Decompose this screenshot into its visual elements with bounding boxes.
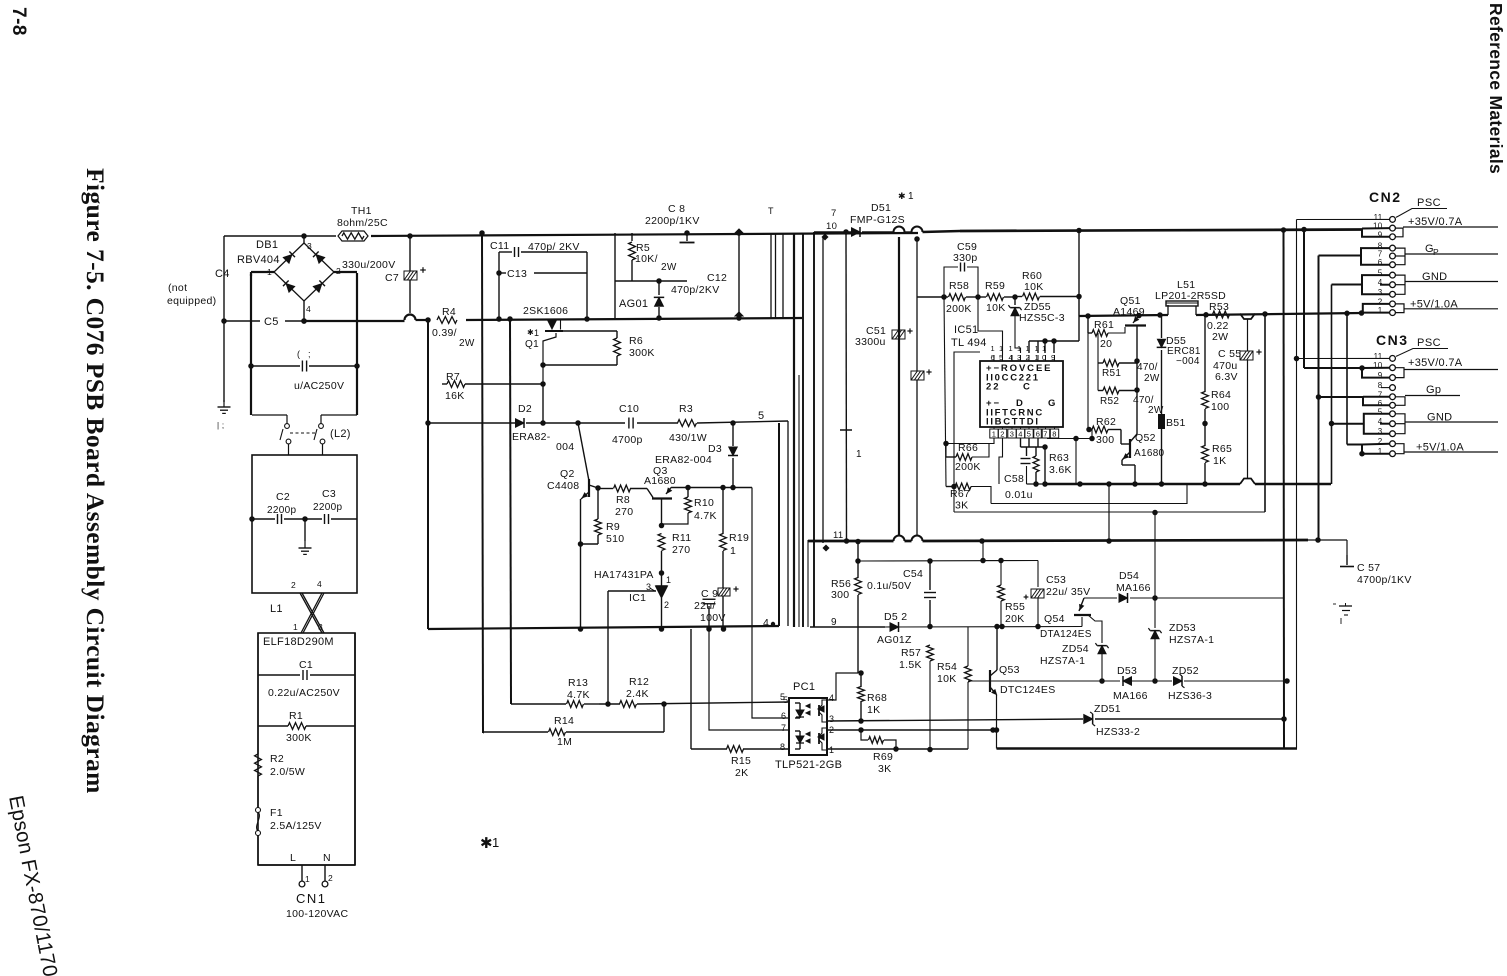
svg-text:ZD51: ZD51 [1094, 703, 1121, 715]
svg-text:HZS36-3: HZS36-3 [1168, 690, 1212, 702]
svg-text:7: 7 [1378, 250, 1383, 259]
wire top rail (+310V primary) [224, 235, 336, 237]
wire pins 7-8 row y438 [1046, 437, 1048, 440]
svg-text:330p: 330p [953, 252, 978, 264]
svg-text:PC1: PC1 [793, 681, 815, 693]
CN3 Gp bracket left [1319, 396, 1364, 398]
svg-text:2: 2 [328, 873, 333, 883]
resistor R55 20K [1000, 561, 1002, 586]
resistor R68 1K [827, 673, 858, 700]
svg-text:R52: R52 [1100, 396, 1119, 407]
svg-text:270: 270 [672, 544, 690, 556]
svg-text:PSC: PSC [1417, 197, 1441, 209]
PC1 channel2 LED [795, 730, 800, 732]
svg-text:0.1u/50V: 0.1u/50V [867, 580, 911, 592]
svg-text:IC51: IC51 [954, 324, 978, 336]
capacitor C53 22u/35V [1037, 561, 1039, 588]
svg-text:L: L [290, 852, 296, 864]
wire x946 R58-left down to R67 row [944, 297, 946, 487]
svg-text:1: 1 [991, 344, 995, 353]
svg-text:300: 300 [831, 589, 849, 601]
title: Figure 7-5. C076 PSB Board Assembly Circuit Diagram (rotated) [81, 168, 110, 794]
svg-text:F1: F1 [270, 807, 283, 819]
transformer polarity dot top [821, 233, 828, 240]
svg-text:10K/: 10K/ [635, 253, 658, 265]
resistor R9 510 [597, 488, 599, 519]
switch pair (L2) [252, 414, 287, 416]
resistor R66 200K [946, 456, 956, 458]
svg-text:ELF18D290M: ELF18D290M [263, 636, 334, 648]
svg-text:C4: C4 [215, 268, 230, 280]
wire bridge node2 to box [334, 271, 357, 273]
svg-text:3: 3 [1378, 288, 1383, 297]
resistor R54 10K [967, 627, 969, 667]
CN3 GND output [1396, 414, 1406, 434]
capacitor C9 22u/100V [708, 606, 710, 629]
svg-text:200K: 200K [946, 303, 972, 315]
wire left vertical of AC box [250, 274, 252, 415]
svg-text:1.5K: 1.5K [899, 659, 922, 671]
svg-text:R10: R10 [694, 497, 714, 509]
svg-text:1: 1 [856, 449, 862, 460]
svg-text:T: T [768, 206, 774, 216]
svg-text:100-120VAC: 100-120VAC [286, 908, 348, 920]
resistor R62 300 [1091, 430, 1093, 439]
svg-text:200K: 200K [955, 461, 981, 473]
CN3 Gp output [1396, 397, 1406, 406]
diode D2 ERA82-004 [516, 419, 525, 428]
svg-text:ERA82-: ERA82- [512, 431, 551, 443]
wire PC1 pin2 row y730 [827, 729, 993, 731]
wire L1 right edge [354, 633, 356, 865]
wire right bus x1296 (PSC) [1296, 220, 1298, 749]
svg-text:10: 10 [826, 221, 837, 232]
svg-text:4.7K: 4.7K [694, 510, 717, 522]
CN2 +5V bracket left [1363, 304, 1390, 313]
svg-text:−004: −004 [1176, 356, 1200, 367]
svg-text:MA166: MA166 [1113, 690, 1148, 702]
wire right bus x1304 (+35V to CN3) [1303, 230, 1305, 369]
ground below C2/C3 [304, 519, 306, 541]
PC1 channel2 phototransistor [818, 733, 820, 744]
svg-text:+35V/0.7A: +35V/0.7A [1408, 357, 1463, 369]
svg-text:2200p/1KV: 2200p/1KV [645, 215, 700, 227]
resistor R1 300K [258, 725, 288, 727]
svg-text:✱: ✱ [480, 835, 493, 852]
svg-text:DTC124ES: DTC124ES [1000, 684, 1056, 696]
wire snubber node row y281 [615, 280, 687, 282]
resistor R56 300 [857, 542, 859, 579]
svg-text:R67: R67 [950, 488, 970, 500]
svg-text:C 57: C 57 [1357, 562, 1380, 574]
svg-text:22u/ 35V: 22u/ 35V [1046, 586, 1090, 598]
zener diode ZD52 HZS36-3 [1174, 677, 1183, 686]
page number 7-8 (rotated) [8, 7, 29, 36]
resistor R67 3K [946, 486, 955, 488]
svg-text:G: G [1048, 398, 1056, 409]
svg-text:D53: D53 [1117, 665, 1137, 677]
wire right bus x1284 (+35V down) [1283, 230, 1286, 749]
resistor R63 3.6K [1035, 447, 1037, 456]
svg-text:470/: 470/ [1137, 362, 1158, 373]
resistor R6 300K [616, 331, 618, 338]
zener diode ZD53 HZS7A-1 [1154, 513, 1156, 599]
svg-text:(: ( [297, 349, 300, 359]
svg-text:P: P [1433, 247, 1439, 257]
svg-text:5: 5 [758, 410, 764, 422]
resistor R61 20 [1087, 316, 1089, 333]
svg-text:R14: R14 [554, 715, 574, 727]
svg-text:MA166: MA166 [1116, 582, 1151, 594]
svg-text:8: 8 [1378, 381, 1383, 390]
svg-text:C53: C53 [1046, 574, 1066, 586]
svg-text:C4408: C4408 [547, 480, 579, 492]
svg-text:3: 3 [829, 714, 834, 724]
svg-text:6.3V: 6.3V [1215, 371, 1238, 383]
wire x983 rail541 to row561 [982, 541, 984, 561]
svg-text:2: 2 [1000, 430, 1004, 439]
zener diode ZD54 HZS7A-1 [1098, 646, 1106, 654]
svg-text:1: 1 [992, 430, 996, 439]
svg-text:6: 6 [781, 711, 786, 721]
svg-text:2: 2 [1378, 297, 1383, 306]
resistor R12 2.4K [620, 701, 637, 708]
svg-text:470p/2KV: 470p/2KV [671, 284, 720, 296]
svg-text:R8: R8 [616, 494, 630, 506]
svg-text:R69: R69 [873, 751, 893, 763]
svg-text:HZS33-2: HZS33-2 [1096, 726, 1140, 738]
transformer polarity dot bottom [822, 544, 829, 551]
svg-text:1: 1 [1026, 344, 1030, 353]
svg-text:D51: D51 [871, 202, 891, 214]
svg-text:TL 494: TL 494 [951, 337, 987, 349]
svg-text:430/1W: 430/1W [669, 432, 707, 444]
resistor R14 1M [484, 731, 548, 733]
svg-text:1: 1 [1017, 344, 1021, 353]
capacitor C11 470p/2KV loop [498, 252, 500, 319]
svg-text:11: 11 [1374, 352, 1383, 361]
diode D55 ERC81-004 [1161, 315, 1163, 338]
resistor R58 200K [944, 296, 948, 298]
PC1 channel1 light arrows [806, 704, 810, 708]
svg-text:1: 1 [1009, 344, 1013, 353]
svg-text:5: 5 [1378, 407, 1383, 416]
svg-text:4: 4 [317, 579, 322, 589]
svg-text:2: 2 [1026, 353, 1030, 362]
svg-text:TH1: TH1 [351, 205, 372, 217]
capacitor C8 2200p/1KV [684, 230, 690, 236]
svg-text:2SK1606: 2SK1606 [523, 305, 568, 317]
svg-text:4: 4 [1378, 417, 1383, 426]
svg-text:0.22u/AC250V: 0.22u/AC250V [268, 687, 340, 699]
svg-text:300K: 300K [629, 347, 655, 359]
svg-text:100: 100 [1211, 401, 1229, 413]
svg-text:A1469: A1469 [1113, 306, 1145, 318]
svg-text:300: 300 [1096, 434, 1114, 446]
svg-text:11: 11 [1374, 213, 1383, 222]
resistor R53 0.22 2W [1213, 311, 1230, 318]
resistor R2 2.0/5W [255, 754, 262, 776]
wire x752 to PC1 pin6 [752, 488, 789, 719]
resistor R64 100 [1204, 315, 1206, 392]
resistor R51 470/2W [1097, 333, 1099, 391]
svg-text:R65: R65 [1212, 443, 1232, 455]
svg-text:R59: R59 [985, 280, 1005, 292]
wire rail541 thin tail to C57 [1308, 539, 1347, 541]
svg-text:ZD52: ZD52 [1172, 665, 1199, 677]
svg-text:R6: R6 [629, 335, 643, 347]
svg-text:;: ; [308, 349, 311, 359]
wire pins 4-6 to C58 [1020, 438, 1022, 447]
wire x1088 down to R62 [1087, 333, 1089, 430]
svg-text:1: 1 [293, 622, 298, 632]
CN2 Gp output [1396, 248, 1406, 265]
wire x1109 rail484 to rail541 [1108, 484, 1110, 541]
wire TL494 emitter pins row y341 [1029, 340, 1079, 342]
wire top row y560 right part [983, 560, 1038, 562]
svg-text:2: 2 [664, 600, 669, 610]
svg-text:7: 7 [1043, 430, 1047, 439]
svg-text:4: 4 [1378, 278, 1383, 287]
CN3 pin 11 PSC wire [1297, 357, 1390, 359]
svg-text:TLP521-2GB: TLP521-2GB [775, 759, 842, 771]
svg-text:Q2: Q2 [560, 468, 575, 480]
svg-text:C 55: C 55 [1218, 348, 1241, 360]
svg-text:7: 7 [831, 208, 837, 219]
svg-text:5: 5 [1378, 269, 1383, 278]
svg-text:6: 6 [991, 353, 995, 362]
CN3 GND bracket left [1364, 414, 1390, 434]
svg-text:(L2): (L2) [330, 428, 351, 440]
svg-text:HZS7A-1: HZS7A-1 [1169, 634, 1214, 646]
wire x484 thick from top [483, 732, 486, 734]
wire secondary bottom rail y541 (pin 11) [808, 540, 894, 543]
svg-text:4: 4 [829, 693, 834, 703]
svg-text:10K: 10K [937, 673, 957, 685]
svg-text:D54: D54 [1119, 570, 1139, 582]
svg-text:R63: R63 [1049, 452, 1069, 464]
svg-text:R9: R9 [606, 521, 620, 533]
fuse F1 2.5A/125V [256, 808, 261, 813]
svg-text:C58: C58 [1004, 473, 1024, 485]
svg-text:C13: C13 [507, 268, 527, 280]
diode D3 ERA82-004 [732, 423, 734, 446]
ground below C4 [223, 400, 225, 407]
svg-text:R13: R13 [568, 677, 588, 689]
svg-text:1: 1 [1035, 353, 1039, 362]
svg-text:R57: R57 [901, 647, 921, 659]
wire right bus x1347 (+5V to CN3) [1346, 313, 1348, 444]
wire secondary top row y232 [814, 231, 851, 233]
svg-text:R11: R11 [672, 532, 691, 544]
svg-text:HA17431PA: HA17431PA [594, 569, 654, 581]
capacitor C58 0.01u [1026, 447, 1028, 456]
diode D52 AG01Z [890, 623, 899, 632]
diode D53 MA166 [1123, 677, 1132, 686]
wire bottom primary rail y629 (pin4) [428, 626, 779, 629]
capacitor C57 4700p/1KV [1346, 540, 1348, 555]
svg-text:22: 22 [986, 382, 1001, 393]
svg-text:100V: 100V [700, 612, 726, 624]
wire pin2 down [999, 438, 1003, 484]
svg-text:AG01Z: AG01Z [877, 634, 912, 646]
svg-text:+5V/1.0A: +5V/1.0A [1416, 442, 1464, 454]
wire x1079 from +35V rail to pins row [1078, 230, 1080, 341]
capacitor C2 2200p [252, 518, 275, 520]
wire L1 bottom edge [258, 864, 355, 866]
svg-text:1: 1 [666, 575, 671, 585]
CN2 pin 11 PSC wire [1297, 218, 1390, 220]
svg-text:Figure 7-5. C076 PSB Board As: Figure 7-5. C076 PSB Board Assembly Circ… [81, 168, 110, 794]
IC51 bottom pins 1-8 [993, 427, 995, 429]
transformer T winding lines [770, 234, 772, 318]
svg-text:8: 8 [1052, 430, 1056, 439]
svg-text:✱: ✱ [527, 328, 534, 337]
wire bridge node4 down [303, 301, 305, 321]
svg-text:C 9: C 9 [701, 588, 718, 600]
wire bridge node3 up [303, 236, 305, 243]
svg-text:3: 3 [1378, 427, 1383, 436]
capacitor C1 0.22u/AC250V [258, 674, 300, 676]
resistor R5 10K/2W [631, 233, 633, 241]
svg-text:9: 9 [1378, 230, 1383, 239]
svg-text:N: N [323, 852, 331, 864]
svg-text:3: 3 [1010, 430, 1014, 439]
svg-text:R54: R54 [937, 661, 957, 673]
svg-text:R1: R1 [289, 710, 303, 722]
svg-text:3: 3 [1017, 353, 1021, 362]
wire electrolytic line x899 [898, 237, 900, 536]
svg-text:300K: 300K [286, 732, 312, 744]
svg-text:R64: R64 [1211, 389, 1231, 401]
svg-text:2.4K: 2.4K [626, 688, 649, 700]
svg-text:4: 4 [1018, 430, 1022, 439]
svg-text:✱: ✱ [898, 191, 906, 201]
capacitor C54 0.1u/50V [929, 561, 931, 590]
svg-text:RBV404: RBV404 [237, 254, 280, 266]
node rail2 junctions [496, 316, 502, 322]
diode D54 MA166 [1084, 597, 1117, 599]
svg-text:AG01: AG01 [619, 298, 648, 310]
capacitor C13 row [496, 270, 502, 276]
svg-text:+35V/0.7A: +35V/0.7A [1408, 216, 1463, 228]
svg-text:1: 1 [534, 328, 539, 338]
CN3 +35V output [1396, 368, 1405, 378]
wire vertical x510 rail2 to R13 row [510, 319, 511, 704]
svg-text:R12: R12 [629, 676, 649, 688]
svg-text:ZD54: ZD54 [1062, 643, 1089, 655]
resistor R59 10K [978, 296, 986, 298]
zener diode ZD51 HZS33-2 [1084, 715, 1093, 724]
svg-text:2200p: 2200p [267, 505, 296, 516]
svg-text:u/AC250V: u/AC250V [294, 380, 344, 392]
svg-text:22u/: 22u/ [694, 600, 716, 612]
+5V rail notch over C55 [1240, 314, 1255, 319]
svg-text:C54: C54 [903, 568, 923, 580]
capacitor C55 470u/6.3V [1247, 319, 1249, 479]
capacitor C12 470p/2KV (wire) [738, 233, 740, 313]
svg-text:FMP-G12S: FMP-G12S [850, 214, 905, 226]
zener diode ZD55 HZS5C-3 [1014, 297, 1016, 305]
svg-text:ZD53: ZD53 [1169, 622, 1196, 634]
svg-text:3K: 3K [955, 500, 968, 512]
line filter L1 box ELF18D290M [258, 633, 355, 865]
svg-text:1M: 1M [557, 736, 572, 748]
svg-text:4: 4 [763, 617, 769, 629]
wire x917 to R58 [917, 296, 944, 298]
resistor R10 4.7K [687, 488, 689, 498]
resistor R60 10K [1015, 296, 1022, 298]
svg-text:D2: D2 [518, 403, 532, 415]
CN2 GND output [1396, 275, 1406, 294]
svg-text:HZS7A-1: HZS7A-1 [1040, 655, 1085, 667]
svg-text:3: 3 [307, 241, 312, 251]
svg-text:8: 8 [780, 742, 785, 752]
svg-text:10K: 10K [986, 302, 1006, 314]
CN2 PSC angled lead [1396, 209, 1447, 218]
junction hump C7 to rail2 [405, 315, 416, 321]
wire R67 long row y503.5 [991, 484, 1187, 504]
svg-text:20: 20 [1100, 338, 1112, 350]
svg-text:| ;: | ; [217, 421, 224, 430]
svg-text:(not: (not [168, 282, 187, 294]
wire Q3 emitter row y487.5 [671, 487, 752, 489]
wire right bus x1265 (+5V sense) [1264, 314, 1266, 512]
svg-text:9: 9 [1051, 353, 1055, 362]
svg-text:C12: C12 [707, 272, 727, 284]
svg-text:11: 11 [833, 530, 843, 541]
svg-text:R15: R15 [731, 755, 751, 767]
CN3 pin8 stub [1381, 387, 1390, 389]
svg-text:R66: R66 [958, 442, 978, 454]
CN3 PSC angled lead [1396, 349, 1448, 357]
svg-text:1: 1 [1378, 306, 1383, 315]
resistor R52 470/2W [1098, 390, 1103, 392]
resistor R8 270 [598, 488, 613, 490]
svg-text:2W: 2W [1144, 373, 1160, 384]
svg-text:C2: C2 [276, 491, 290, 503]
svg-text:0.01u: 0.01u [1005, 489, 1033, 501]
svg-text:C3: C3 [322, 488, 336, 500]
svg-text:4700p: 4700p [612, 434, 643, 446]
wire left vertical x615 [614, 233, 616, 318]
capacitor C3 2200p [305, 518, 322, 520]
wire bridge node1 to box [251, 271, 274, 273]
IC51 TL494 box [980, 361, 1063, 427]
svg-text:2W: 2W [1212, 331, 1228, 343]
svg-text:IC1: IC1 [629, 592, 646, 604]
wire x709 to PC1 pin7 [709, 629, 789, 730]
resistor R15 2K [690, 629, 692, 749]
PC1 channel2 light arrows [806, 732, 810, 736]
wire right vertical of AC box [356, 273, 358, 415]
CN3 +5V bracket left [1347, 444, 1362, 446]
resistor R11 270 [658, 534, 665, 551]
wire row y561 [858, 560, 1038, 563]
svg-text:C 8: C 8 [668, 203, 685, 215]
svg-text:DB1: DB1 [256, 239, 278, 251]
svg-text:1: 1 [999, 344, 1003, 353]
PC1 channel1 LED [795, 702, 800, 704]
wire pin1 down to R66 row [946, 438, 994, 444]
capacitor C4 line (not equipped) [223, 236, 225, 402]
resistor R7 16K [442, 383, 447, 385]
svg-text:8ohm/25C: 8ohm/25C [337, 217, 388, 229]
thermistor TH1 8ohm/25C [342, 233, 364, 239]
ground symbol near C57 [1345, 603, 1347, 606]
svg-text:GND: GND [1427, 412, 1452, 424]
svg-text:GND: GND [1422, 271, 1447, 283]
